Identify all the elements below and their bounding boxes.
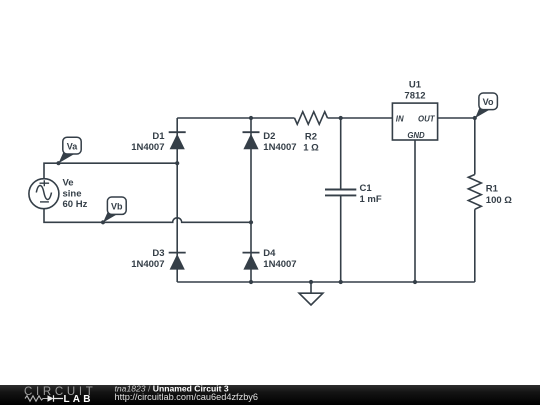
diode D3 xyxy=(131,248,185,270)
node flag Vb xyxy=(101,197,126,224)
svg-text:1N4007: 1N4007 xyxy=(263,259,296,270)
node flag Va xyxy=(56,137,81,165)
diode D4 xyxy=(243,248,297,270)
wire Vo node down to R1 xyxy=(474,118,476,175)
wire bottom rail xyxy=(177,281,475,283)
wire right bridge branch xyxy=(250,118,252,282)
resistor R2 xyxy=(295,112,328,154)
svg-text:sine: sine xyxy=(63,188,82,199)
svg-text:OUT: OUT xyxy=(418,115,436,124)
footer bar xyxy=(0,385,540,405)
svg-text:U1: U1 xyxy=(409,80,422,91)
svg-text:1 Ω: 1 Ω xyxy=(303,143,319,154)
ground xyxy=(299,282,323,305)
wire left bridge branch xyxy=(176,118,178,282)
svg-text:D4: D4 xyxy=(263,248,276,259)
resistor R1 xyxy=(468,175,512,210)
diode D1 xyxy=(131,131,185,153)
svg-text:Va: Va xyxy=(67,141,79,151)
wire top rail to R2 xyxy=(177,117,294,119)
wire C1 bottom stem xyxy=(340,195,342,282)
diode D2 xyxy=(243,131,297,153)
wire source bottom to Vb rail with hop over left branch xyxy=(44,209,251,223)
svg-text:R2: R2 xyxy=(305,132,317,143)
svg-text:Vb: Vb xyxy=(111,201,123,211)
footer title text xyxy=(115,384,259,403)
CircuitLab logo xyxy=(24,386,97,405)
svg-text:7812: 7812 xyxy=(404,91,425,102)
voltage source Ve xyxy=(29,178,88,211)
svg-text:60 Hz: 60 Hz xyxy=(63,199,88,210)
svg-text:1 mF: 1 mF xyxy=(360,194,382,205)
wire C1 top stem xyxy=(340,118,342,190)
wire source top to Va rail xyxy=(44,163,177,179)
capacitor C1 xyxy=(325,183,382,205)
svg-text:100 Ω: 100 Ω xyxy=(486,195,512,206)
svg-text:D3: D3 xyxy=(152,248,164,259)
svg-text:R1: R1 xyxy=(486,184,499,195)
wire R2 to U1 IN xyxy=(328,117,393,119)
op-amp U1 regulator 7812 xyxy=(392,80,437,141)
wire R1 to bottom rail xyxy=(474,209,476,282)
wire U1 GND stem xyxy=(414,140,416,282)
svg-text:D1: D1 xyxy=(152,131,165,142)
svg-text:LAB: LAB xyxy=(64,394,94,405)
svg-text:Vo: Vo xyxy=(483,97,494,107)
node flag Vo xyxy=(473,93,498,120)
svg-text:IN: IN xyxy=(396,115,404,124)
svg-text:1N4007: 1N4007 xyxy=(263,142,296,153)
wire U1 OUT to Vo node xyxy=(438,117,475,119)
svg-text:D2: D2 xyxy=(263,131,275,142)
svg-text:1N4007: 1N4007 xyxy=(131,259,164,270)
svg-text:Ve: Ve xyxy=(63,178,74,189)
svg-text:http://circuitlab.com/cau6ed4z: http://circuitlab.com/cau6ed4zfzby6 xyxy=(115,392,259,402)
svg-text:C1: C1 xyxy=(360,183,373,194)
svg-text:GND: GND xyxy=(407,131,425,140)
node junction dots xyxy=(175,116,417,284)
svg-text:1N4007: 1N4007 xyxy=(131,142,164,153)
